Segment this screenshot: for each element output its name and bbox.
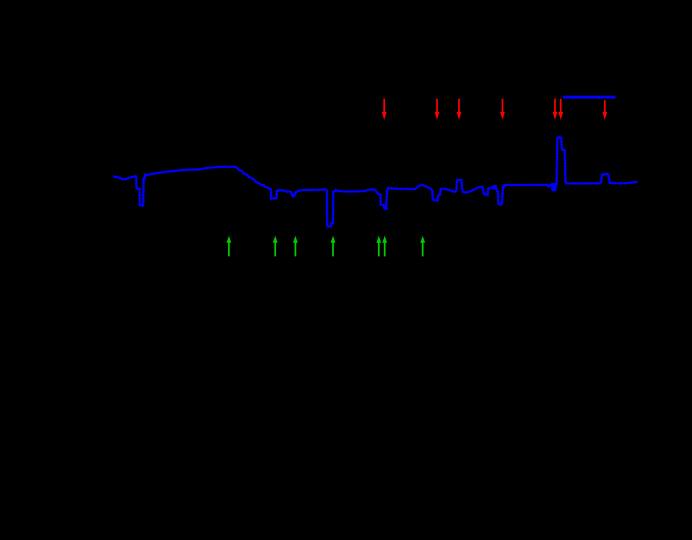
- blue segment bar (top right): [563, 96, 615, 99]
- green up-arrow 5: [376, 236, 381, 257]
- red down-arrow 6: [558, 99, 563, 120]
- red down-arrow 7: [602, 100, 607, 120]
- red down-arrow 2: [435, 99, 440, 120]
- signal trace (blue): [114, 137, 637, 227]
- red down-arrow 1: [382, 99, 387, 120]
- green up-arrow 6: [382, 236, 387, 257]
- trace marker beads: [114, 137, 637, 227]
- green up-arrow 1: [227, 236, 232, 257]
- red down-arrow 4: [500, 99, 505, 120]
- red down-arrow 3: [457, 99, 462, 120]
- green up-arrow 3: [293, 236, 298, 257]
- red down-arrow 5: [553, 99, 558, 120]
- green up-arrow 4: [331, 236, 336, 257]
- green up-arrow 7: [420, 236, 425, 257]
- green up-arrow 2: [273, 236, 278, 257]
